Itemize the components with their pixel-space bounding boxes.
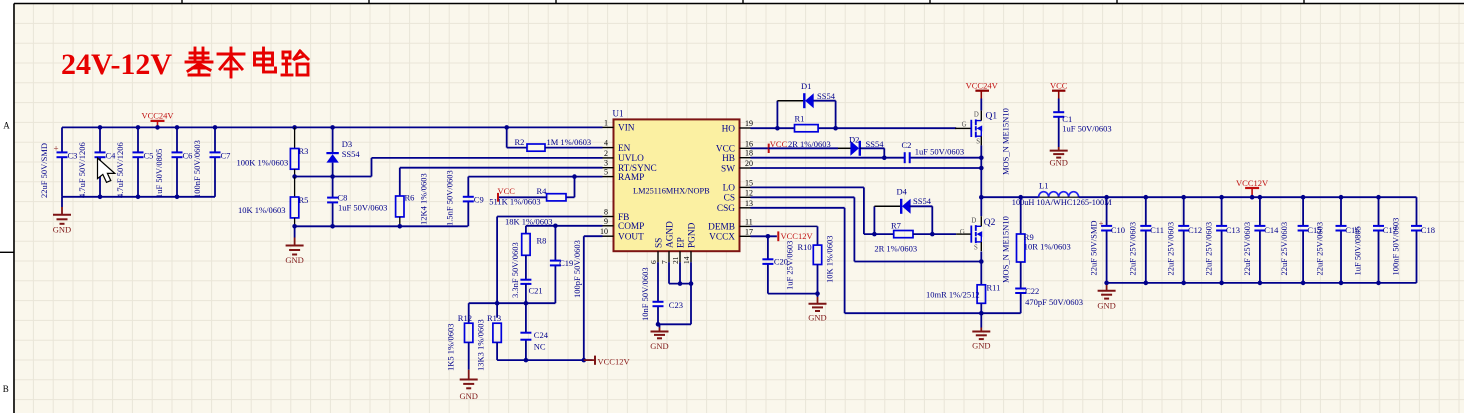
svg-text:5: 5 — [604, 168, 608, 177]
svg-text:4: 4 — [604, 139, 608, 148]
svg-text:GND: GND — [1097, 301, 1115, 311]
svg-text:C18: C18 — [1421, 225, 1435, 235]
svg-text:EP: EP — [676, 237, 686, 248]
svg-text:SS: SS — [654, 238, 664, 248]
svg-text:R1: R1 — [795, 114, 805, 124]
svg-text:C4: C4 — [106, 151, 117, 161]
svg-text:D4: D4 — [897, 187, 908, 197]
svg-text:C2: C2 — [902, 140, 912, 150]
svg-text:22uF 25V/0603: 22uF 25V/0603 — [1279, 222, 1289, 276]
svg-text:D3: D3 — [342, 139, 352, 149]
svg-text:SS54: SS54 — [817, 91, 836, 101]
svg-text:10R 1%/0603: 10R 1%/0603 — [1024, 242, 1071, 252]
svg-text:G: G — [962, 121, 967, 128]
svg-text:22uF 25V/0603: 22uF 25V/0603 — [1242, 222, 1252, 276]
svg-text:LO: LO — [723, 184, 736, 194]
svg-text:GND: GND — [650, 341, 668, 351]
svg-text:1uF 50V/0805: 1uF 50V/0805 — [1353, 226, 1363, 275]
svg-text:D: D — [974, 112, 979, 119]
svg-text:SS54: SS54 — [913, 196, 932, 206]
svg-text:C5: C5 — [144, 151, 154, 161]
svg-text:C11: C11 — [1150, 225, 1164, 235]
svg-text:C24: C24 — [534, 330, 549, 340]
svg-text:22uF 25V/0603: 22uF 25V/0603 — [1128, 222, 1138, 276]
svg-text:C1: C1 — [1062, 114, 1072, 124]
svg-text:1.5nF 50V/0603: 1.5nF 50V/0603 — [444, 170, 454, 226]
svg-text:D2: D2 — [849, 135, 859, 145]
svg-text:GND: GND — [1049, 158, 1067, 168]
svg-text:13K3 1%/0603: 13K3 1%/0603 — [476, 319, 486, 371]
svg-text:S: S — [976, 139, 980, 146]
svg-text:LM25116MHX/NOPB: LM25116MHX/NOPB — [633, 187, 710, 196]
svg-text:SS54: SS54 — [866, 139, 885, 149]
svg-text:DEMB: DEMB — [708, 223, 735, 233]
svg-text:PGND: PGND — [687, 222, 697, 248]
svg-text:GND: GND — [53, 225, 71, 235]
svg-text:2: 2 — [604, 149, 608, 158]
svg-text:1uF 50V/0603: 1uF 50V/0603 — [915, 147, 964, 157]
svg-text:AGND: AGND — [665, 221, 675, 248]
svg-text:22uF 50V/SMD: 22uF 50V/SMD — [39, 143, 49, 198]
svg-text:R9: R9 — [1024, 232, 1034, 242]
svg-text:100uH 10A/WHC1265-100M: 100uH 10A/WHC1265-100M — [1012, 198, 1112, 207]
svg-text:C21: C21 — [529, 286, 543, 296]
svg-text:3: 3 — [604, 159, 608, 168]
svg-text:VCC24V: VCC24V — [141, 111, 174, 121]
svg-text:D: D — [971, 217, 976, 224]
svg-text:R3: R3 — [299, 146, 309, 156]
svg-text:VCC12V: VCC12V — [1236, 178, 1269, 188]
svg-text:VCC12V: VCC12V — [781, 231, 814, 241]
svg-text:Q2: Q2 — [984, 218, 996, 228]
svg-text:22uF 25V/0603: 22uF 25V/0603 — [1204, 222, 1214, 276]
svg-text:1M 1%/0603: 1M 1%/0603 — [547, 137, 592, 147]
svg-text:UVLO: UVLO — [618, 154, 644, 164]
svg-text:100nF 50V/0603: 100nF 50V/0603 — [1391, 218, 1401, 276]
svg-text:SW: SW — [721, 164, 735, 174]
svg-text:COMP: COMP — [618, 222, 644, 232]
svg-text:C13: C13 — [1226, 225, 1240, 235]
svg-text:R12: R12 — [458, 313, 472, 323]
svg-text:21: 21 — [671, 256, 680, 264]
svg-text:C22: C22 — [1025, 286, 1039, 296]
svg-text:HB: HB — [722, 154, 735, 164]
svg-text:GND: GND — [459, 391, 477, 401]
svg-text:100pF 50V/0603: 100pF 50V/0603 — [572, 240, 582, 298]
svg-text:R8: R8 — [537, 236, 547, 246]
svg-text:B: B — [3, 384, 9, 394]
svg-text:EN: EN — [618, 144, 631, 154]
svg-text:R11: R11 — [987, 283, 1001, 293]
svg-text:13: 13 — [745, 199, 753, 208]
svg-text:C10: C10 — [1111, 225, 1125, 235]
svg-text:1: 1 — [604, 118, 608, 127]
svg-text:C6: C6 — [183, 151, 193, 161]
svg-text:R2: R2 — [515, 137, 525, 147]
svg-text:2R 1%/0603: 2R 1%/0603 — [874, 244, 917, 254]
svg-text:9: 9 — [604, 217, 608, 226]
svg-text:C7: C7 — [221, 151, 231, 161]
svg-text:Q1: Q1 — [986, 112, 998, 122]
svg-text:10K 1%/0603: 10K 1%/0603 — [825, 236, 835, 283]
svg-text:C23: C23 — [669, 300, 683, 310]
svg-text:14: 14 — [682, 256, 691, 264]
svg-text:R10: R10 — [798, 242, 812, 252]
svg-text:SS54: SS54 — [342, 149, 361, 159]
svg-text:GND: GND — [972, 341, 990, 351]
svg-text:A: A — [3, 121, 10, 131]
svg-text:R4: R4 — [537, 186, 548, 196]
svg-text:511K 1%/0603: 511K 1%/0603 — [489, 197, 540, 207]
svg-text:1uF 50V/0603: 1uF 50V/0603 — [338, 203, 387, 213]
svg-text:100nF 50V/0603: 100nF 50V/0603 — [192, 140, 202, 198]
svg-text:1uF 25V/0603: 1uF 25V/0603 — [785, 241, 795, 290]
svg-text:22uF 25V/0603: 22uF 25V/0603 — [1166, 222, 1176, 276]
svg-text:+: + — [53, 144, 58, 154]
svg-text:L1: L1 — [1039, 181, 1048, 191]
svg-text:15: 15 — [745, 178, 753, 187]
svg-text:R5: R5 — [299, 195, 309, 205]
svg-text:HO: HO — [722, 124, 736, 134]
svg-text:MOS_N ME15N10: MOS_N ME15N10 — [1000, 216, 1010, 283]
svg-text:20: 20 — [745, 159, 753, 168]
svg-text:12K4 1%/0603: 12K4 1%/0603 — [418, 173, 428, 225]
svg-text:GND: GND — [808, 313, 826, 323]
svg-text:VCC24V: VCC24V — [966, 81, 999, 91]
svg-text:22uF 25V/0603: 22uF 25V/0603 — [1315, 222, 1325, 276]
svg-text:8: 8 — [604, 208, 608, 217]
svg-text:CS: CS — [724, 194, 735, 204]
svg-text:D1: D1 — [801, 81, 811, 91]
svg-text:18: 18 — [745, 149, 753, 158]
svg-text:17: 17 — [745, 227, 753, 236]
svg-text:10mR 1%/2512: 10mR 1%/2512 — [926, 290, 980, 300]
svg-text:1uF 50V/0805: 1uF 50V/0805 — [154, 149, 164, 198]
svg-text:6: 6 — [649, 260, 658, 264]
svg-text:16: 16 — [745, 139, 753, 148]
svg-text:VOUT: VOUT — [618, 233, 644, 243]
svg-text:7: 7 — [660, 260, 669, 264]
svg-text:4.7uF 50V/1206: 4.7uF 50V/1206 — [115, 142, 125, 198]
svg-text:CSG: CSG — [717, 204, 735, 214]
svg-text:C3: C3 — [68, 151, 78, 161]
svg-text:VCC: VCC — [498, 186, 516, 196]
svg-text:G: G — [960, 229, 965, 236]
svg-text:R7: R7 — [891, 221, 901, 231]
svg-text:24V-12V: 24V-12V — [61, 48, 172, 81]
svg-text:VCCX: VCCX — [709, 233, 735, 243]
svg-text:+: + — [1099, 218, 1104, 228]
svg-text:RAMP: RAMP — [618, 173, 644, 183]
svg-text:C9: C9 — [474, 195, 484, 205]
svg-text:VIN: VIN — [618, 124, 635, 134]
svg-text:10: 10 — [600, 227, 608, 236]
svg-text:3.3nF 50V/0603: 3.3nF 50V/0603 — [510, 242, 520, 298]
svg-text:470pF 50V/0603: 470pF 50V/0603 — [1025, 297, 1083, 307]
svg-text:GND: GND — [285, 255, 303, 265]
svg-text:4.7uF 50V/1206: 4.7uF 50V/1206 — [77, 142, 87, 198]
svg-text:12: 12 — [745, 188, 753, 197]
svg-text:1K5 1%/0603: 1K5 1%/0603 — [445, 324, 455, 371]
svg-text:C14: C14 — [1264, 225, 1279, 235]
svg-text:10nF 50V/0603: 10nF 50V/0603 — [640, 267, 650, 321]
svg-text:VCC: VCC — [1050, 81, 1068, 91]
svg-text:C12: C12 — [1188, 225, 1202, 235]
svg-text:19: 19 — [745, 119, 753, 128]
svg-text:S: S — [974, 244, 978, 251]
svg-text:22uF 50V/SMD: 22uF 50V/SMD — [1089, 220, 1099, 275]
svg-text:MOS_N ME15N10: MOS_N ME15N10 — [1000, 108, 1010, 175]
svg-text:18K 1%/0603: 18K 1%/0603 — [505, 216, 552, 226]
svg-text:U1: U1 — [613, 109, 624, 119]
svg-text:11: 11 — [745, 217, 753, 226]
svg-text:R13: R13 — [487, 313, 501, 323]
svg-text:VCC12V: VCC12V — [598, 357, 631, 367]
svg-text:10K 1%/0603: 10K 1%/0603 — [238, 205, 285, 215]
svg-text:1uF 50V/0603: 1uF 50V/0603 — [1062, 124, 1111, 134]
svg-text:C8: C8 — [338, 193, 348, 203]
svg-text:100K 1%/0603: 100K 1%/0603 — [237, 157, 289, 167]
svg-text:R6: R6 — [405, 193, 415, 203]
svg-text:NC: NC — [534, 342, 546, 352]
